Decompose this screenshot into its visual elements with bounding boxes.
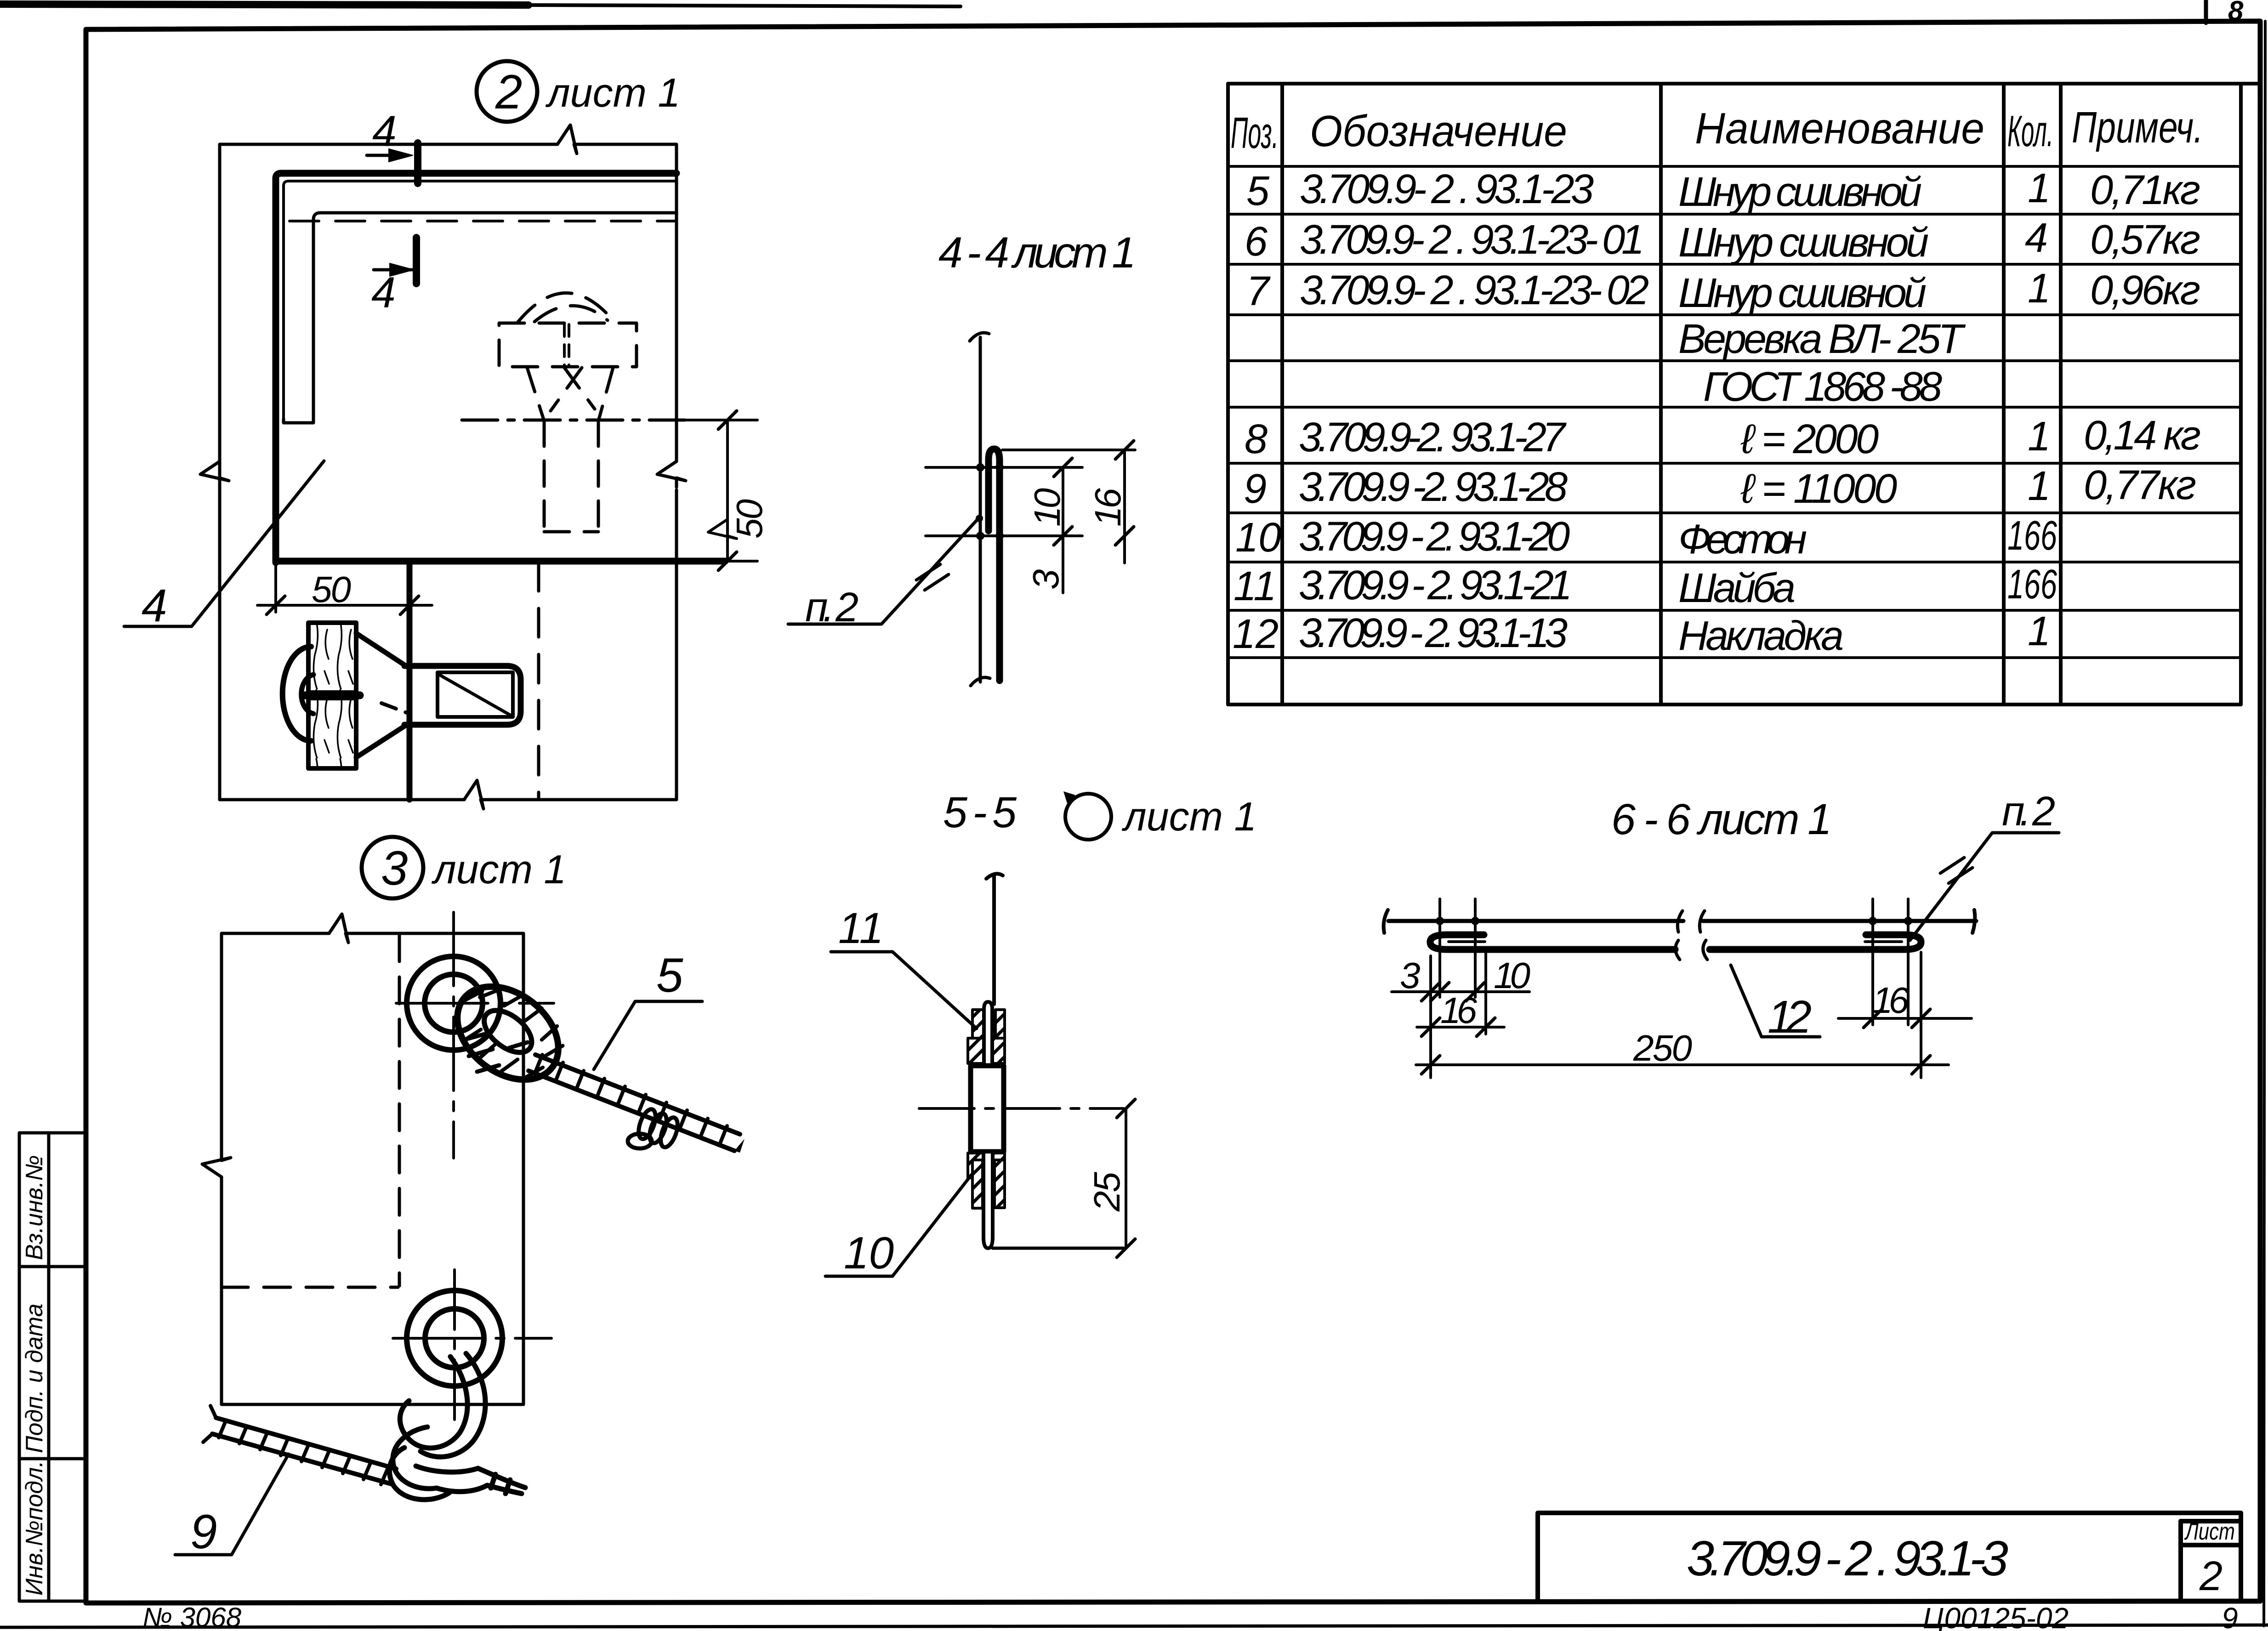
dim 16 (left): [1417, 990, 1504, 1036]
section mark 4 (upper): [367, 107, 418, 183]
svg-text:1: 1: [2028, 463, 2051, 509]
svg-text:9: 9: [190, 1505, 217, 1559]
svg-text:50: 50: [729, 499, 770, 539]
rope 9 (long rope from lower left): [203, 1406, 396, 1484]
scan bottom edge line: [0, 1625, 2268, 1627]
table header: [1231, 103, 2203, 158]
svg-text:11: 11: [838, 904, 884, 953]
svg-text:Фестон: Фестон: [1678, 517, 1807, 563]
centerline: [919, 1107, 1124, 1110]
svg-text:5: 5: [656, 949, 683, 1002]
view 2 fold centerline: [462, 419, 685, 422]
leader label 4: [124, 461, 324, 631]
extension lines: [1431, 899, 1921, 1078]
scan right edge line: [2264, 21, 2265, 1626]
svg-text:9: 9: [1244, 466, 1267, 512]
svg-text:Шнур сшивной: Шнур сшивной: [1678, 270, 1927, 316]
svg-text:11: 11: [1233, 563, 1276, 609]
svg-text:Вз.инв.№: Вз.инв.№: [21, 1155, 48, 1260]
svg-text:12: 12: [1233, 611, 1279, 657]
svg-text:Лист: Лист: [2184, 1518, 2235, 1545]
svg-text:Веревка ВЛ- 25Т: Веревка ВЛ- 25Т: [1678, 316, 1966, 362]
svg-text:10: 10: [844, 1228, 894, 1278]
svg-text:8: 8: [2228, 0, 2244, 26]
svg-text:Примеч.: Примеч.: [2072, 103, 2203, 152]
svg-text:ГОСТ 1868 -88: ГОСТ 1868 -88: [1703, 364, 1942, 410]
fabric edge (horizontal): [1384, 910, 1976, 933]
dimension 50 (left, horizontal): [257, 563, 432, 614]
dim 16 (right): [1838, 980, 1972, 1028]
dim 25: [1086, 1099, 1135, 1257]
svg-text:2: 2: [495, 65, 522, 119]
svg-text:3.709.9 -2. 93.1-28: 3.709.9 -2. 93.1-28: [1299, 464, 1568, 510]
section mark 4 (lower): [371, 238, 416, 317]
svg-text:250: 250: [1633, 1028, 1692, 1068]
svg-text:6: 6: [1245, 219, 1268, 265]
svg-text:25: 25: [1086, 1172, 1127, 1212]
svg-text:0,96кг: 0,96кг: [2090, 267, 2200, 313]
svg-text:9: 9: [2222, 1602, 2238, 1631]
svg-text:10: 10: [1027, 488, 1068, 527]
svg-text:8: 8: [1245, 416, 1268, 462]
svg-text:6 - 6 лист 1: 6 - 6 лист 1: [1611, 795, 1832, 844]
svg-text:Шайба: Шайба: [1678, 565, 1796, 611]
view 2 balloon: [477, 61, 680, 122]
view 2 hidden centerline (dashed vertical): [537, 563, 540, 800]
label 12: [1731, 965, 1820, 1043]
svg-text:10: 10: [1235, 515, 1281, 561]
dim 10 and 3: [1025, 458, 1072, 593]
svg-text:16: 16: [1440, 990, 1478, 1031]
scan top edge line: [0, 4, 529, 5]
svg-text:Поз.: Поз.: [1231, 108, 1279, 158]
svg-text:3: 3: [381, 841, 408, 895]
label 11: [831, 904, 977, 1029]
svg-text:1: 1: [2028, 414, 2051, 460]
view 2 hidden fold line (dashed): [290, 220, 676, 222]
sheet number box 8 (top right corner): [2204, 1, 2208, 23]
svg-text:№ 3068: № 3068: [142, 1602, 242, 1631]
rope loop around toggle waist: [283, 647, 311, 741]
svg-text:4: 4: [372, 107, 397, 156]
label 10: [825, 1175, 972, 1278]
lower grommet: [407, 1290, 502, 1386]
svg-text:1: 1: [2028, 266, 2051, 312]
dim 3 / 10: [1392, 955, 1530, 1001]
svg-text:166: 166: [2007, 513, 2058, 559]
svg-text:Обозначение: Обозначение: [1310, 107, 1567, 156]
svg-text:10: 10: [1494, 955, 1530, 996]
svg-text:Накладка: Накладка: [1678, 613, 1844, 659]
hook strip (section of washer clip): [989, 449, 1000, 681]
svg-text:4: 4: [371, 268, 396, 317]
svg-text:5 - 5: 5 - 5: [943, 788, 1017, 837]
section 5-5 title: [943, 788, 1256, 840]
label 5: [594, 949, 702, 1069]
fabric edge line (vertical): [970, 333, 990, 686]
view 3 panel: [202, 914, 523, 1404]
svg-text:Ц00125-02: Ц00125-02: [1923, 1602, 2069, 1631]
svg-text:5: 5: [1246, 168, 1270, 214]
svg-text:0,57кг: 0,57кг: [2090, 217, 2200, 263]
view 2 fabric outline: [200, 125, 686, 809]
svg-text:лист 1: лист 1: [431, 847, 566, 892]
centerlines upper grommet: [452, 912, 455, 1158]
upper washers stack (section): [968, 1002, 1005, 1064]
svg-text:4: 4: [2025, 215, 2048, 261]
svg-text:16: 16: [1087, 488, 1128, 527]
svg-text:0,14 кг: 0,14 кг: [2084, 413, 2201, 459]
svg-text:3.709.9- 2 . 93.1-23: 3.709.9- 2 . 93.1-23: [1300, 166, 1594, 212]
upper grommet: [407, 956, 500, 1050]
label 9: [175, 1454, 289, 1559]
svg-text:лист 1: лист 1: [545, 70, 680, 115]
upper rope ring through grommet: [439, 967, 577, 1099]
svg-text:3.709.9- 2 . 93.1-23- 01: 3.709.9- 2 . 93.1-23- 01: [1300, 217, 1644, 263]
left attribute strip: [19, 1133, 86, 1601]
extension lines + dots: [926, 450, 1135, 536]
svg-text:16: 16: [1872, 980, 1910, 1021]
svg-text:Инв.№подл.: Инв.№подл.: [21, 1461, 48, 1596]
svg-text:1: 1: [2028, 165, 2051, 211]
svg-text:2: 2: [2199, 1553, 2223, 1599]
bottom extension: [993, 1247, 1124, 1250]
svg-text:3: 3: [1025, 569, 1066, 590]
svg-text:12: 12: [1768, 991, 1812, 1043]
seizing wrap knot: [635, 1107, 659, 1141]
rope loop through lower grommet with knot: [390, 1353, 525, 1500]
svg-text:Наименование: Наименование: [1695, 104, 1984, 153]
svg-text:Шнур сшивной: Шнур сшивной: [1678, 169, 1922, 215]
strip 12 with hooked ends: [1430, 935, 1921, 960]
svg-text:3.709.9 - 2. 93.1-21: 3.709.9 - 2. 93.1-21: [1299, 563, 1572, 608]
toggle detail: wood piece: [283, 623, 360, 768]
svg-text:1: 1: [2028, 608, 2051, 654]
svg-text:4: 4: [142, 580, 167, 631]
svg-text:3.709.9 - 2. 93.1-13: 3.709.9 - 2. 93.1-13: [1299, 610, 1568, 656]
svg-text:п. 2: п. 2: [2002, 789, 2055, 835]
svg-text:ℓ = 11000: ℓ = 11000: [1740, 466, 1897, 512]
svg-text:0,71кг: 0,71кг: [2090, 167, 2200, 213]
view 2 hem band: [276, 173, 676, 563]
svg-text:Подп. и дата: Подп. и дата: [21, 1303, 48, 1453]
svg-text:3.709.9 - 2. 93.1-20: 3.709.9 - 2. 93.1-20: [1299, 514, 1570, 560]
svg-text:166: 166: [2007, 562, 2058, 608]
dimension 50 (right, vertical): [685, 411, 770, 570]
svg-text:лист 1: лист 1: [1121, 794, 1256, 839]
view 3 balloon: [362, 837, 566, 898]
svg-text:3.709.9 - 2 . 93.1-3: 3.709.9 - 2 . 93.1-3: [1687, 1530, 2008, 1586]
svg-text:3: 3: [1400, 955, 1421, 996]
svg-text:3.709.9- 2 . 93.1-23- 02: 3.709.9- 2 . 93.1-23- 02: [1300, 267, 1649, 313]
lower washers stack (section): [968, 1153, 1005, 1248]
svg-text:0,77кг: 0,77кг: [2084, 462, 2196, 508]
hidden rope inside grommet (short dashes): [465, 1033, 528, 1072]
hidden rope behind toggle: [564, 324, 569, 365]
dim 250: [1416, 1028, 1949, 1074]
svg-text:50: 50: [312, 569, 351, 610]
п.2 label (4-4): [788, 515, 983, 631]
svg-text:Шнур сшивной: Шнур сшивной: [1678, 220, 1929, 266]
dim 16: [1087, 441, 1134, 563]
toggle strap: [356, 633, 521, 757]
svg-text:ℓ = 2000: ℓ = 2000: [1740, 416, 1879, 462]
view 3 hidden seam (dashed): [222, 935, 399, 1287]
svg-text:4 - 4 лист 1: 4 - 4 лист 1: [938, 228, 1136, 277]
view 2 centerline of tie: [407, 563, 413, 800]
hidden toggle (dashed anchor): [499, 293, 637, 532]
centerlines lower grommet: [453, 1270, 456, 1421]
table rows: [1233, 165, 2201, 659]
svg-text:3.709.9-2. 93.1-27: 3.709.9-2. 93.1-27: [1299, 415, 1567, 460]
label п.2 (6-6): [1910, 789, 2059, 940]
view 2 bottom edge of upper sheet: [276, 558, 725, 565]
rope end above: [986, 874, 1003, 1004]
svg-text:7: 7: [1246, 268, 1271, 314]
rope 5 (twisted cord going down-right): [529, 1055, 745, 1153]
svg-text:Кол.: Кол.: [2007, 107, 2053, 156]
washer barrel: [971, 1066, 1004, 1152]
